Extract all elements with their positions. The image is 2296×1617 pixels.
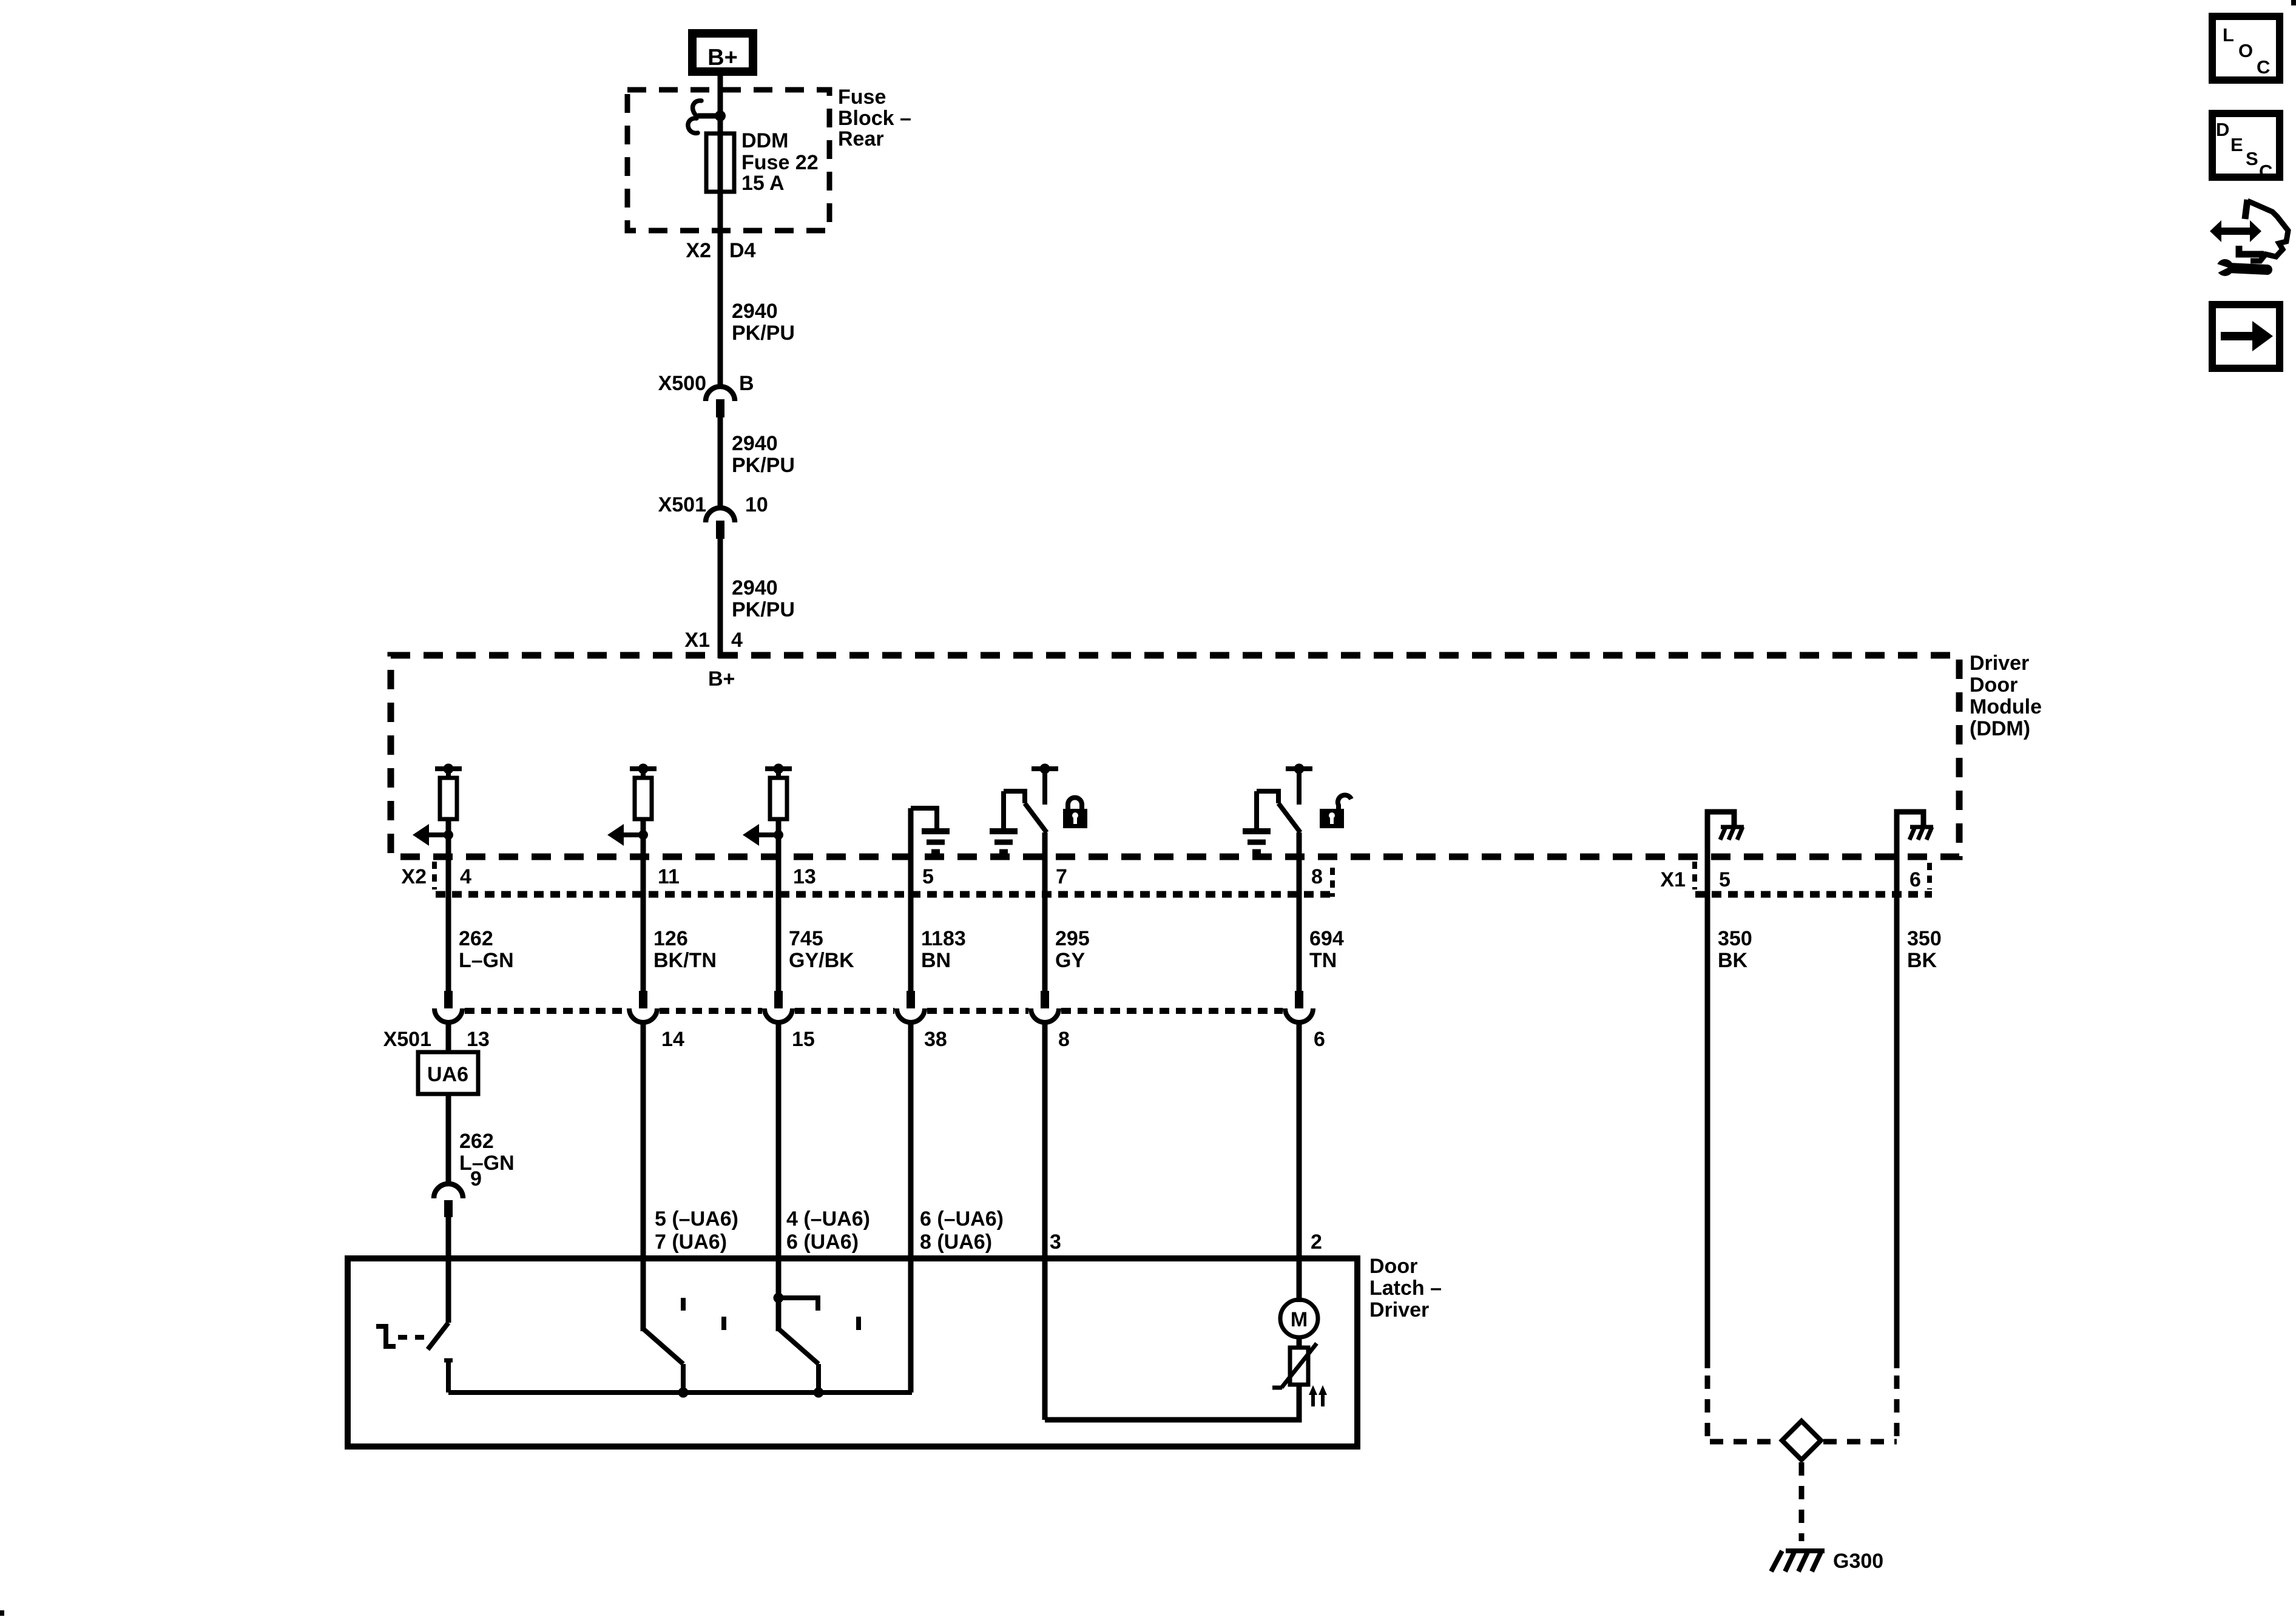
latch switch 2 blade bbox=[643, 1329, 683, 1364]
svg-text:BK/TN: BK/TN bbox=[653, 949, 717, 972]
latch switch 2 contacts bbox=[681, 1298, 686, 1311]
svg-text:13: 13 bbox=[793, 865, 816, 888]
svg-text:Fuse 22: Fuse 22 bbox=[741, 151, 819, 174]
PTC thermistor bbox=[1290, 1348, 1308, 1385]
svg-text:L: L bbox=[2223, 24, 2234, 46]
svg-text:E: E bbox=[2230, 134, 2243, 155]
svg-text:D4: D4 bbox=[729, 239, 756, 262]
door outline bbox=[2247, 201, 2288, 261]
svg-text:8: 8 bbox=[1311, 865, 1323, 888]
svg-text:TN: TN bbox=[1309, 949, 1337, 972]
door ajar switch lower contact bbox=[444, 1359, 453, 1363]
wire 745 GY/BK lower bbox=[776, 1022, 782, 1331]
latch switch 3 contact bbox=[856, 1317, 861, 1330]
DDM driver output 2 (pin 11) T-bar bbox=[630, 766, 657, 771]
connector X501 labels bbox=[383, 1028, 1325, 1051]
label Driver Door Module (DDM) bbox=[1970, 652, 2042, 740]
wire pin4 column bbox=[446, 819, 451, 991]
svg-text:GY/BK: GY/BK bbox=[789, 949, 854, 972]
svg-text:B: B bbox=[739, 372, 754, 395]
svg-text:1183: 1183 bbox=[921, 927, 966, 950]
option box UA6 bbox=[418, 1052, 478, 1094]
junction dot pin13 bbox=[774, 830, 783, 840]
svg-text:Driver: Driver bbox=[1970, 652, 2029, 675]
svg-text:PK/PU: PK/PU bbox=[732, 454, 795, 477]
svg-text:Rear: Rear bbox=[838, 127, 884, 150]
inline connector X501 pin 13 bbox=[444, 991, 453, 1008]
motor M bbox=[1280, 1300, 1318, 1337]
wire labels 350 BK bbox=[1718, 927, 1942, 972]
svg-text:X2: X2 bbox=[686, 239, 711, 262]
dashed ground wire left bbox=[1705, 1376, 1710, 1439]
corner marks bbox=[2291, 0, 2296, 5]
power symbol B+ box bbox=[692, 33, 753, 72]
wire label 2940 PK/PU (2) bbox=[732, 432, 795, 477]
svg-text:GY: GY bbox=[1055, 949, 1085, 972]
svg-text:13: 13 bbox=[467, 1028, 490, 1051]
svg-text:B+: B+ bbox=[707, 45, 738, 70]
svg-text:6: 6 bbox=[1909, 868, 1921, 891]
svg-text:BK: BK bbox=[1907, 949, 1937, 972]
DDM lock switch (pin 7) T-bar bbox=[1032, 766, 1058, 771]
inline connector X501 pin 8 bbox=[1041, 991, 1049, 1008]
svg-text:8 (UA6): 8 (UA6) bbox=[920, 1230, 992, 1254]
svg-text:Driver: Driver bbox=[1369, 1298, 1429, 1322]
wire pin13 column bbox=[776, 819, 782, 991]
svg-text:Block –: Block – bbox=[838, 107, 911, 130]
connector label X1 | 4 bbox=[684, 629, 743, 652]
svg-text:X1: X1 bbox=[1660, 868, 1686, 891]
svg-text:6 (–UA6): 6 (–UA6) bbox=[920, 1207, 1004, 1230]
fuse block - rear dashed box bbox=[627, 90, 829, 231]
inline connector X501 pin 14 bbox=[639, 991, 647, 1008]
wire labels row 1 bbox=[459, 927, 1344, 972]
DDM unlock switch (pin 8) T-bar bbox=[1286, 766, 1312, 771]
DDM driver output 3 resistor bbox=[770, 778, 787, 819]
svg-text:C: C bbox=[2259, 161, 2272, 182]
wire 295 GY lower bbox=[1042, 1022, 1048, 1420]
svg-text:6 (UA6): 6 (UA6) bbox=[786, 1230, 859, 1254]
svg-text:DDM: DDM bbox=[741, 129, 788, 152]
dashed wire to ground bbox=[1799, 1462, 1805, 1541]
icon next arrow box bbox=[2212, 305, 2280, 368]
svg-text:295: 295 bbox=[1055, 927, 1090, 950]
svg-text:Door: Door bbox=[1369, 1255, 1417, 1278]
unlocked padlock icon bbox=[1320, 795, 1351, 828]
svg-text:UA6: UA6 bbox=[427, 1063, 468, 1086]
wire junction to clip bbox=[698, 113, 720, 119]
junction dot latch 2 bbox=[678, 1388, 689, 1398]
lock switch arm pin7 bbox=[1004, 789, 1025, 794]
svg-text:M: M bbox=[1291, 1308, 1308, 1331]
svg-text:S: S bbox=[2246, 148, 2258, 169]
svg-text:4 (–UA6): 4 (–UA6) bbox=[786, 1207, 870, 1230]
svg-text:262: 262 bbox=[459, 927, 493, 950]
DDM driver output 1 resistor bbox=[440, 778, 457, 819]
door ajar switch linkage (dashed) bbox=[398, 1335, 427, 1340]
inline connector X501 pin 6 bbox=[1295, 991, 1303, 1008]
arrow out pin11 bbox=[623, 832, 643, 837]
arrow out pin13 bbox=[758, 832, 778, 837]
arrow out pin4 bbox=[428, 832, 448, 837]
wire 1183 BN lower bbox=[908, 1022, 914, 1393]
svg-text:2: 2 bbox=[1311, 1230, 1322, 1254]
svg-text:Door: Door bbox=[1970, 673, 2017, 697]
svg-text:7 (UA6): 7 (UA6) bbox=[655, 1230, 727, 1254]
junction dot pin11 bbox=[638, 830, 648, 840]
svg-text:(DDM): (DDM) bbox=[1970, 717, 2030, 740]
svg-text:15 A: 15 A bbox=[741, 172, 785, 195]
connector X2 label and brackets bbox=[401, 865, 1323, 888]
chassis ground symbol X1-6 bbox=[1910, 825, 1933, 829]
icon LOC box bbox=[2212, 16, 2280, 80]
wire X501-13 to UA6 bbox=[446, 1022, 451, 1052]
door ajar switch fixed post bbox=[376, 1326, 396, 1346]
svg-text:Latch –: Latch – bbox=[1369, 1277, 1442, 1300]
svg-text:694: 694 bbox=[1309, 927, 1344, 950]
svg-text:5: 5 bbox=[1719, 868, 1730, 891]
label Fuse Block - Rear bbox=[838, 86, 911, 150]
DDM driver output 1 (pin 4) T-bar bbox=[435, 766, 462, 771]
chassis ground symbol X1-5 bbox=[1721, 825, 1744, 829]
wire motor to PTC bbox=[1297, 1337, 1302, 1348]
svg-text:14: 14 bbox=[661, 1028, 684, 1051]
ground symbol pin5 bbox=[922, 828, 950, 834]
connector X1 dotted line bbox=[1695, 891, 1932, 898]
DDM internal ground (pin 5) bbox=[908, 808, 914, 991]
inline connector X501 pin 10 bbox=[658, 493, 768, 539]
latch pin labels bbox=[655, 1207, 1322, 1254]
wire 694 TN lower bbox=[1297, 1022, 1302, 1302]
wire label 2940 PK/PU (1) bbox=[732, 300, 795, 345]
svg-text:X1: X1 bbox=[684, 629, 710, 652]
svg-text:126: 126 bbox=[653, 927, 688, 950]
splice diamond bbox=[1782, 1421, 1821, 1460]
svg-text:X501: X501 bbox=[658, 493, 706, 516]
locked padlock icon bbox=[1063, 798, 1087, 829]
svg-text:10: 10 bbox=[745, 493, 768, 516]
label Door Latch - Driver bbox=[1369, 1255, 1442, 1322]
junction in fuse block bbox=[715, 110, 726, 121]
wire 126 BK/TN lower bbox=[641, 1022, 646, 1331]
actuator arrows bbox=[1311, 1393, 1315, 1406]
svg-text:2940: 2940 bbox=[732, 300, 778, 323]
DDM ground output pin X1-5 hook bbox=[1707, 812, 1734, 1368]
svg-text:7: 7 bbox=[1056, 865, 1067, 888]
junction dot pin4 bbox=[444, 830, 453, 840]
DDM ground output pin X1-6 hook bbox=[1897, 812, 1923, 1368]
latch common wire bbox=[448, 1390, 912, 1395]
latch switch 3 junction bbox=[774, 1293, 784, 1303]
inline connector X500 pin B bbox=[658, 372, 754, 417]
svg-text:6: 6 bbox=[1314, 1028, 1325, 1051]
dashed ground wire right bbox=[1894, 1376, 1900, 1439]
svg-text:Module: Module bbox=[1970, 695, 2042, 718]
svg-text:8: 8 bbox=[1058, 1028, 1070, 1051]
svg-text:Fuse: Fuse bbox=[838, 86, 886, 109]
DDM driver output 3 (pin 13) T-bar bbox=[765, 766, 792, 771]
svg-text:350: 350 bbox=[1718, 927, 1752, 950]
junction dot latch 3 bbox=[814, 1388, 824, 1398]
wire B+ feed (2940 PK/PU trunk) bbox=[718, 76, 723, 385]
connector X2 dotted line bbox=[436, 891, 1334, 898]
svg-text:L–GN: L–GN bbox=[459, 949, 514, 972]
svg-text:PK/PU: PK/PU bbox=[732, 598, 795, 621]
wire connector9 to latch bbox=[446, 1216, 451, 1323]
driver door module (DDM) dashed box bbox=[391, 655, 1959, 857]
connector X501 dotted line bbox=[465, 1008, 627, 1014]
wrench bbox=[2217, 259, 2234, 276]
svg-text:G300: G300 bbox=[1833, 1550, 1883, 1573]
icon component view (arrow door wrench) bbox=[2210, 200, 2288, 276]
door ajar switch blade bbox=[428, 1323, 448, 1349]
svg-text:D: D bbox=[2216, 119, 2229, 140]
svg-text:2940: 2940 bbox=[732, 432, 778, 455]
wire pin7 column bbox=[1042, 832, 1048, 991]
svg-text:745: 745 bbox=[789, 927, 823, 950]
inline connector X501 pin 38 bbox=[907, 991, 915, 1008]
svg-text:11: 11 bbox=[658, 865, 680, 888]
wire pin11 column bbox=[641, 819, 646, 991]
svg-text:O: O bbox=[2238, 40, 2253, 61]
fuse clip symbol bbox=[693, 101, 701, 115]
double arrow bbox=[2210, 220, 2261, 242]
svg-text:X2: X2 bbox=[401, 865, 427, 888]
svg-text:350: 350 bbox=[1907, 927, 1942, 950]
svg-text:15: 15 bbox=[792, 1028, 815, 1051]
svg-text:4: 4 bbox=[731, 629, 743, 652]
latch switch 3 blade bbox=[778, 1329, 819, 1364]
svg-text:4: 4 bbox=[460, 865, 471, 888]
ground symbol pin8 bbox=[1243, 828, 1271, 834]
svg-text:PK/PU: PK/PU bbox=[732, 322, 795, 345]
svg-text:3: 3 bbox=[1050, 1230, 1061, 1254]
wire 2940 PK/PU segment 3 bbox=[718, 539, 723, 658]
svg-text:BK: BK bbox=[1718, 949, 1748, 972]
latch switch 3 branch contact bbox=[778, 1298, 818, 1311]
ground symbol pin7 bbox=[990, 828, 1018, 834]
inline connector pin 9 bbox=[434, 1184, 463, 1198]
svg-text:5: 5 bbox=[922, 865, 934, 888]
ground G300 symbol bbox=[1786, 1548, 1825, 1553]
svg-text:38: 38 bbox=[924, 1028, 947, 1051]
DDM driver output 2 resistor bbox=[635, 778, 652, 819]
svg-text:C: C bbox=[2257, 56, 2270, 78]
svg-text:X500: X500 bbox=[658, 372, 706, 395]
svg-text:X501: X501 bbox=[383, 1028, 431, 1051]
svg-text:5 (–UA6): 5 (–UA6) bbox=[655, 1207, 738, 1230]
motor loop wire bbox=[1045, 1385, 1299, 1420]
wire label 262 L-GN (2) bbox=[459, 1130, 515, 1190]
unlock switch arm pin8 bbox=[1257, 789, 1278, 794]
wire 2940 PK/PU segment 2 bbox=[718, 417, 723, 507]
wire label 2940 PK/PU (3) bbox=[732, 576, 795, 621]
connector label X2 | D4 bbox=[686, 239, 755, 262]
inline connector X501 pin 15 bbox=[774, 991, 783, 1008]
svg-text:BN: BN bbox=[921, 949, 951, 972]
svg-text:L–GN: L–GN bbox=[459, 1152, 515, 1175]
icon DESC box bbox=[2212, 113, 2280, 177]
wire pin8 column bbox=[1297, 832, 1302, 991]
fuse DDM Fuse 22 15 A bbox=[706, 133, 734, 192]
svg-text:2940: 2940 bbox=[732, 576, 778, 599]
svg-text:B+: B+ bbox=[708, 667, 735, 690]
svg-text:262: 262 bbox=[459, 1130, 494, 1153]
door latch driver box bbox=[348, 1258, 1357, 1447]
wire UA6 down bbox=[446, 1094, 451, 1186]
svg-text:9: 9 bbox=[470, 1167, 482, 1190]
connector X1 label and brackets bbox=[1660, 868, 1921, 891]
